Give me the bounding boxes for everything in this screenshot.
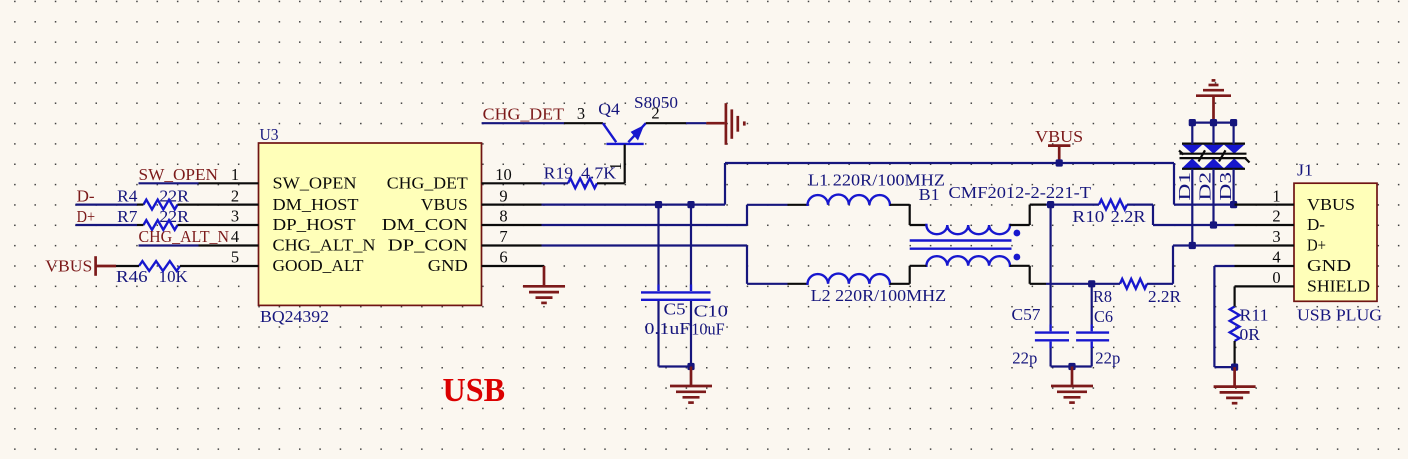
- svg-text:CHG_ALT_N: CHG_ALT_N: [139, 227, 230, 246]
- ground below C57 C6: [1071, 367, 1074, 386]
- wire C10 bottom: [690, 301, 692, 367]
- U3 pin 10: [482, 182, 542, 184]
- wire U3 pin 8 to L1: [542, 224, 748, 226]
- U3 pin 8: [482, 224, 542, 226]
- svg-text:4: 4: [1272, 248, 1280, 267]
- svg-text:D2: D2: [1196, 172, 1215, 201]
- svg-text:VBUS: VBUS: [1035, 127, 1083, 146]
- svg-text:J1: J1: [1297, 160, 1313, 179]
- J1 pin 1: [1235, 204, 1295, 206]
- J1 pin 0: [1235, 285, 1295, 287]
- wire J1 pin 0 to R11: [1233, 286, 1235, 306]
- svg-text:4: 4: [231, 227, 239, 246]
- svg-text:DM_CON: DM_CON: [382, 215, 468, 234]
- U3 pin 4: [199, 244, 259, 246]
- junction B1 top out: [1047, 201, 1054, 208]
- svg-text:SHIELD: SHIELD: [1307, 277, 1370, 296]
- J1 pin 3: [1235, 244, 1295, 246]
- wire VBUS rail: [725, 162, 1174, 164]
- U3 pin 6: [482, 265, 545, 267]
- wire D-: [76, 204, 138, 206]
- wire C5 top: [657, 205, 659, 285]
- ground right of Q4: [726, 103, 744, 145]
- wire CHG_DET: [482, 122, 564, 124]
- junction at C10: [687, 201, 694, 208]
- svg-text:B1: B1: [919, 185, 940, 204]
- svg-text:C57: C57: [1012, 305, 1041, 324]
- svg-text:GND: GND: [428, 256, 468, 275]
- wire CHG_ALT_N: [139, 244, 199, 246]
- U3 pin 7: [482, 244, 542, 246]
- diode D3 symbol: [1224, 145, 1244, 154]
- wire VBUS to R46: [116, 265, 139, 267]
- wire R7 to U3 pin 3: [137, 224, 144, 226]
- wire C6 top: [1091, 284, 1093, 325]
- junction D3 on VBUS: [1230, 201, 1237, 208]
- wire D1 top: [1191, 123, 1193, 144]
- svg-text:0: 0: [1272, 268, 1280, 287]
- svg-text:GOOD_ALT: GOOD_ALT: [273, 256, 364, 275]
- wire B1 bottom out: [1010, 265, 1030, 267]
- svg-text:22R: 22R: [159, 207, 189, 226]
- svg-text:2: 2: [651, 103, 659, 122]
- wire C5 bottom: [657, 301, 659, 367]
- wire D3 top: [1232, 123, 1234, 144]
- ground below C5 C10: [690, 367, 693, 386]
- svg-text:22p: 22p: [1012, 348, 1037, 367]
- svg-text:C5: C5: [664, 299, 686, 318]
- J1 pin 2: [1235, 224, 1295, 226]
- svg-text:2: 2: [231, 186, 239, 205]
- wire L1 to B1: [909, 205, 911, 225]
- ground below R11: [1233, 367, 1236, 386]
- wire R11 to ground: [1233, 341, 1235, 367]
- svg-text:8: 8: [499, 207, 507, 226]
- svg-text:DP_CON: DP_CON: [388, 236, 468, 255]
- J1 pin 4: [1235, 265, 1295, 267]
- svg-text:D+: D+: [1307, 236, 1326, 255]
- ground below U3 pin 6: [543, 266, 546, 286]
- wire C57 bottom: [1049, 348, 1051, 367]
- wire R46 to U3 pin 5: [180, 265, 199, 267]
- svg-text:SW_OPEN: SW_OPEN: [139, 165, 219, 184]
- wire R4 to U3 pin 2: [137, 204, 144, 206]
- junction at C5: [655, 201, 662, 208]
- svg-text:Q4: Q4: [598, 100, 620, 119]
- svg-text:CHG_DET: CHG_DET: [387, 174, 468, 193]
- svg-text:1: 1: [1272, 186, 1280, 205]
- junction B1 bottom out: [1088, 280, 1095, 287]
- wire SW_OPEN: [139, 182, 199, 184]
- wire C6 bottom: [1091, 348, 1093, 367]
- junction C57 C6 ground: [1068, 363, 1075, 370]
- svg-text:U3: U3: [260, 125, 279, 144]
- wire D1 bottom: [1191, 169, 1193, 246]
- wire VBUS from U3 pin 9: [542, 204, 726, 206]
- svg-text:BQ24392: BQ24392: [260, 307, 329, 326]
- svg-text:DP_HOST: DP_HOST: [273, 215, 356, 234]
- wire R8 left: [1092, 283, 1120, 285]
- svg-text:10uF: 10uF: [691, 319, 724, 338]
- wire R8 to J1 pin 3: [1147, 283, 1173, 285]
- U3 pin 2: [199, 204, 259, 206]
- diode cathode bars: [1179, 144, 1250, 169]
- wire L2 to B1: [909, 266, 911, 284]
- svg-text:9: 9: [499, 186, 507, 205]
- svg-text:C6: C6: [1094, 307, 1113, 326]
- svg-text:D+: D+: [77, 207, 96, 226]
- svg-text:R4: R4: [117, 187, 137, 206]
- wire D+: [76, 224, 138, 226]
- wire VBUS drop to J1: [1173, 163, 1175, 205]
- svg-text:R8: R8: [1093, 287, 1112, 306]
- svg-text:C10: C10: [694, 302, 728, 321]
- junction rail D2: [1210, 119, 1217, 126]
- wire D2 top: [1212, 123, 1214, 144]
- junction VBUS port: [1056, 159, 1063, 166]
- wire D2 bottom: [1212, 169, 1214, 225]
- svg-text:0.1uF: 0.1uF: [645, 319, 691, 338]
- junction R11 ground: [1231, 364, 1238, 371]
- junction rail D3: [1230, 119, 1237, 126]
- wire B1 top out: [1010, 224, 1030, 226]
- wire D3 bottom: [1232, 169, 1234, 205]
- junction D1 on D+ net: [1189, 242, 1196, 249]
- wire U3 pin 7 to L2: [542, 244, 748, 246]
- wire C57 top: [1049, 205, 1051, 325]
- U3 pin 5: [199, 265, 259, 267]
- wire diode rail: [1192, 121, 1233, 123]
- wire C10 top: [690, 205, 692, 285]
- svg-text:D1: D1: [1175, 172, 1194, 201]
- svg-text:USB PLUG: USB PLUG: [1297, 305, 1382, 324]
- wire Q4 emitter to ground: [646, 122, 686, 124]
- svg-text:R7: R7: [117, 207, 137, 226]
- svg-text:3: 3: [1272, 227, 1280, 246]
- junction C5 C10 ground: [687, 363, 694, 370]
- svg-text:VBUS: VBUS: [1307, 195, 1355, 214]
- svg-text:SW_OPEN: SW_OPEN: [273, 174, 357, 193]
- svg-text:10: 10: [495, 165, 512, 184]
- svg-text:R46: R46: [116, 267, 148, 286]
- diode D2 symbol: [1203, 145, 1223, 154]
- IC U3 BQ24392 body: [259, 143, 482, 305]
- svg-text:VBUS: VBUS: [45, 257, 92, 276]
- wire R19 to Q4 base: [597, 182, 625, 184]
- U3 pin 3: [199, 224, 259, 226]
- svg-text:GND: GND: [1307, 256, 1351, 275]
- svg-text:USB: USB: [443, 372, 506, 409]
- wire VBUS riser: [724, 163, 726, 205]
- wire U3 pin 10 to R19: [542, 182, 569, 184]
- svg-text:22R: 22R: [159, 187, 189, 206]
- svg-text:R11: R11: [1240, 306, 1269, 325]
- svg-text:2.2R: 2.2R: [1148, 287, 1181, 306]
- svg-text:D-: D-: [77, 187, 95, 206]
- connector J1 body: [1294, 183, 1377, 301]
- svg-text:R10: R10: [1072, 207, 1104, 226]
- U3 pin 9: [482, 204, 542, 206]
- svg-text:VBUS: VBUS: [421, 195, 468, 214]
- svg-text:2: 2: [1272, 207, 1280, 226]
- svg-text:5: 5: [231, 248, 239, 267]
- svg-text:3: 3: [577, 104, 585, 123]
- inverted ground above diodes: [1196, 80, 1231, 122]
- svg-text:3: 3: [231, 207, 239, 226]
- svg-text:1: 1: [231, 165, 239, 184]
- svg-text:0R: 0R: [1240, 325, 1261, 344]
- wire R10 to J1 pin 2: [1127, 204, 1153, 206]
- svg-text:CMF2012-2-221-T: CMF2012-2-221-T: [949, 183, 1092, 202]
- svg-text:D-: D-: [1307, 215, 1325, 234]
- U3 pin 1: [199, 182, 259, 184]
- svg-text:6: 6: [499, 248, 507, 267]
- junction D2 on D- net: [1210, 221, 1217, 228]
- svg-text:CHG_ALT_N: CHG_ALT_N: [273, 236, 376, 255]
- svg-text:L2 220R/100MHZ: L2 220R/100MHZ: [811, 286, 947, 305]
- svg-text:7: 7: [499, 227, 507, 246]
- diode D1 symbol: [1182, 145, 1202, 154]
- junction rail D1: [1189, 119, 1196, 126]
- svg-text:D3: D3: [1216, 172, 1235, 201]
- svg-text:DM_HOST: DM_HOST: [273, 195, 359, 214]
- svg-text:4.7K: 4.7K: [581, 164, 616, 183]
- wire J1 pin 4 to ground: [1214, 265, 1234, 267]
- svg-text:22p: 22p: [1095, 348, 1120, 367]
- svg-text:CHG_DET: CHG_DET: [483, 105, 564, 124]
